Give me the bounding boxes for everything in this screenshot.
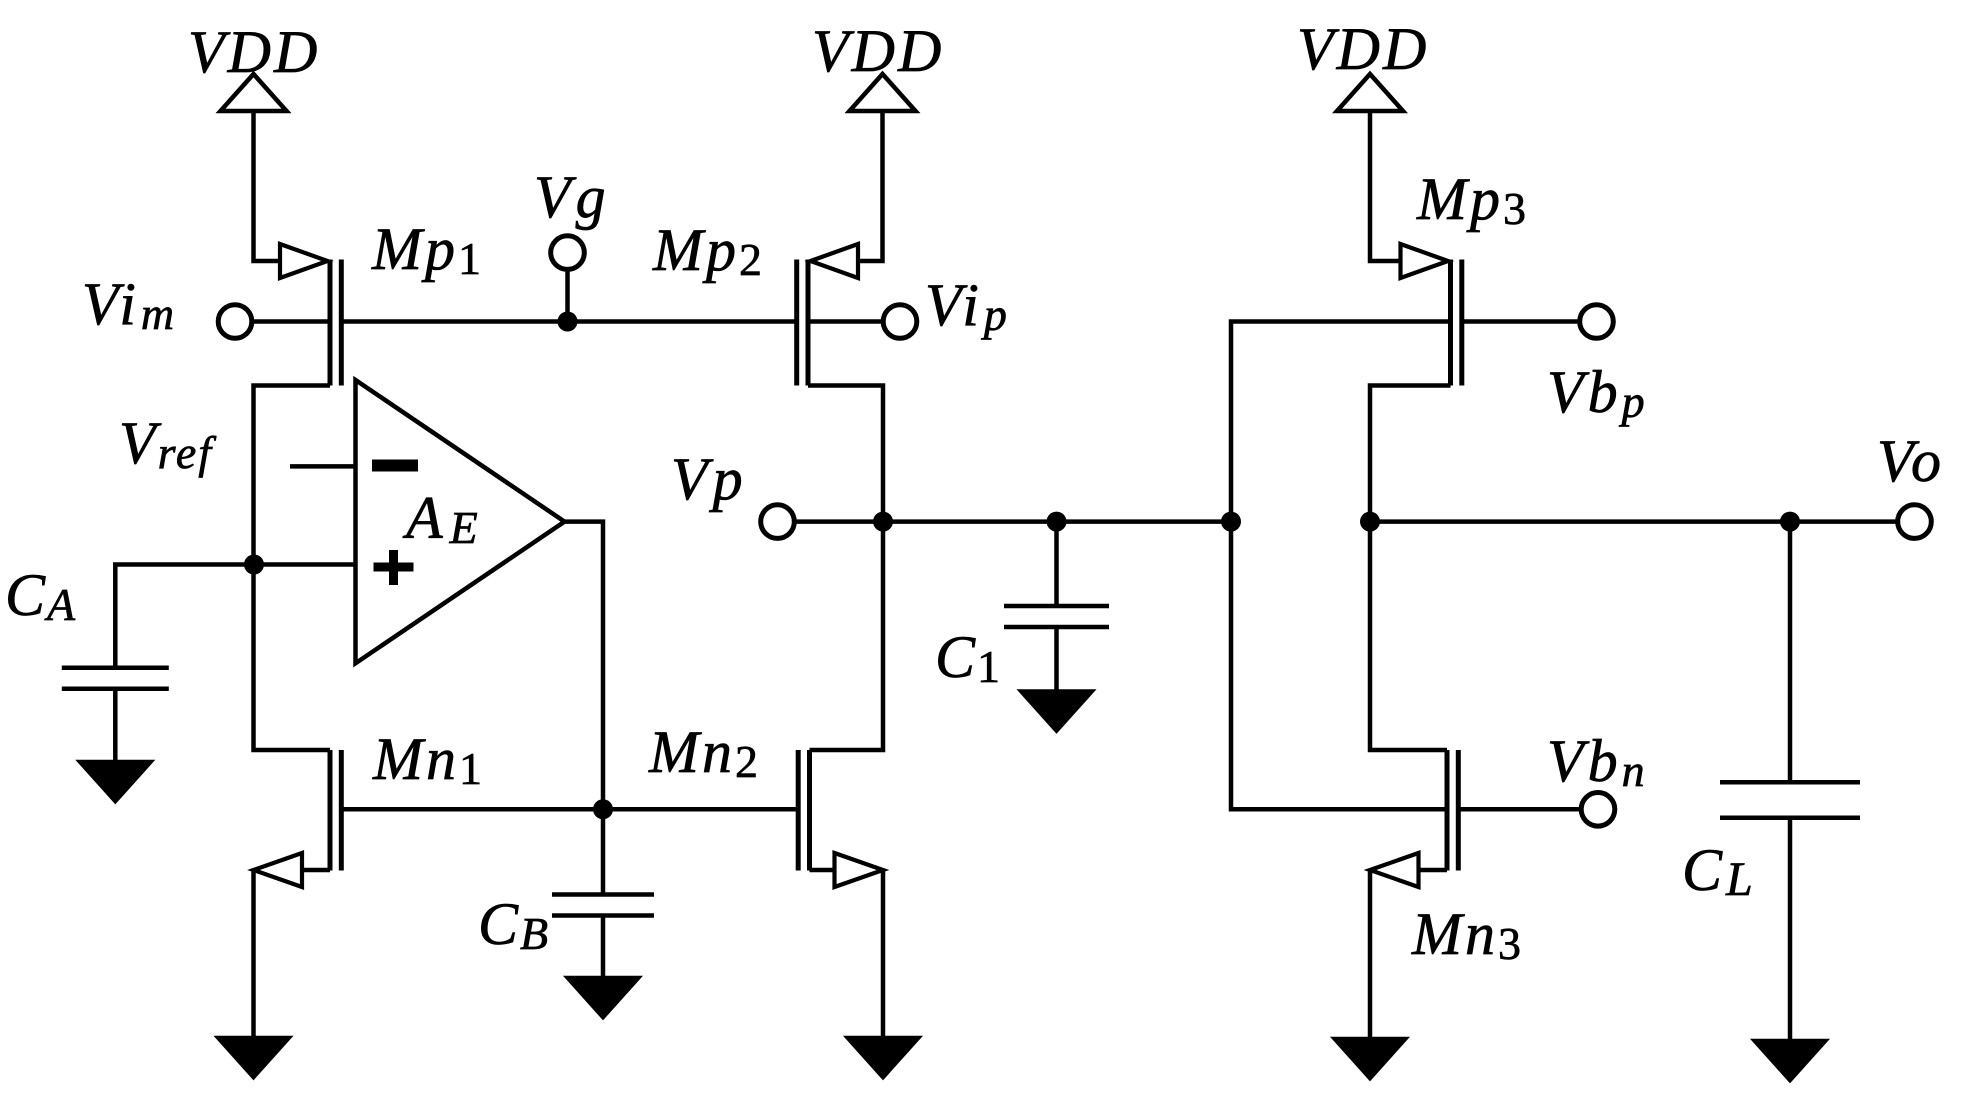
label Vref [119, 410, 217, 478]
wire CB node to CB [601, 809, 606, 894]
junction Vp at Mp2 drain [873, 512, 893, 532]
ground (below CL) [1755, 1041, 1825, 1080]
label Mp3 [1416, 166, 1529, 234]
junction Vo at drain rail [1360, 512, 1380, 532]
terminal Vp [761, 505, 795, 539]
transistor Mp3 [1401, 244, 1462, 386]
wire Mn1 source to ground [251, 870, 256, 1038]
wire Mn1 gate to Mn2 gate [341, 807, 796, 812]
ground (below C1) [1022, 692, 1092, 731]
transistor Mn2 [798, 750, 883, 887]
wire Mn3 gate to Vbn [1458, 807, 1581, 812]
junction Vp at bulk rail [1221, 512, 1241, 532]
label Vbp [1547, 359, 1649, 427]
label Mp2 [652, 217, 765, 285]
terminal Vim [218, 305, 252, 339]
terminal Vbp [1580, 305, 1614, 339]
wire CL to ground [1788, 818, 1793, 1041]
wire op-amp plus input [254, 562, 356, 567]
wire Vp node rail [794, 519, 1231, 524]
capacitor CB [552, 895, 654, 916]
capacitor CL [1720, 782, 1860, 817]
capacitor C1 [1004, 606, 1109, 627]
label Vg [534, 164, 611, 230]
wire op-amp output to Mn1 gate node [565, 522, 604, 810]
label CL [1682, 837, 1755, 906]
wire Mp3 drain / Mn3 drain (right vertical) [1370, 386, 1451, 751]
terminal Vo [1898, 505, 1932, 539]
junction Vp at C1 [1047, 512, 1067, 532]
label Mp1 [371, 216, 484, 284]
wire Mp1 gate to Mp2 gate [341, 319, 796, 324]
label CB [478, 891, 550, 959]
wire Vip to Mp2 bulk [808, 319, 884, 324]
transistor Mp1 [280, 244, 341, 386]
label Vbn [1547, 728, 1649, 796]
label Vp [671, 446, 748, 512]
svg-text:Vo: Vo [1877, 428, 1945, 494]
junction Vo at CL [1780, 512, 1800, 532]
wire Vo to CL [1788, 522, 1793, 783]
terminal Vip [883, 305, 917, 339]
wire Mn3 source to ground [1368, 870, 1373, 1039]
junction plus input node [244, 555, 264, 575]
wire Vo rail [1370, 519, 1898, 524]
label Mn2 [648, 719, 761, 787]
ground (below Mn1) [219, 1038, 289, 1077]
wire plus node to CA [115, 565, 254, 668]
wire Mn2 source to ground [881, 870, 886, 1038]
wire Vp to C1 [1054, 522, 1059, 606]
wire Vim to Mp1 bulk [252, 319, 331, 324]
junction Vg node [558, 312, 578, 332]
power VDD (left rail) [188, 19, 320, 111]
wire CA to ground [113, 689, 118, 762]
label Mn1 [372, 726, 485, 794]
wire Mp2 drain / Mn2 drain (middle vertical) [808, 386, 883, 751]
label AE (op-amp gain) [402, 485, 480, 553]
label Vo [1877, 428, 1945, 494]
wire Vref stub (op-amp minus input) [290, 464, 356, 469]
wire VDD to Mp3 source [1370, 111, 1402, 261]
ground (below Mn2) [848, 1038, 918, 1077]
wire Mp1 drain / Mn1 drain (left vertical) [254, 386, 331, 751]
capacitor CA [62, 668, 169, 689]
label Mn3 [1411, 901, 1524, 969]
svg-text:VDD: VDD [1297, 16, 1429, 82]
wire Mn1 source [302, 868, 330, 873]
op-amp AE [356, 380, 565, 663]
label Vip [925, 272, 1012, 340]
wire C1 to ground [1054, 627, 1059, 692]
transistor Mp2 [797, 244, 858, 386]
wire VDD to Mp2 source [857, 111, 883, 261]
transistor Mn1 [254, 750, 342, 887]
terminal Vg [551, 236, 585, 270]
wire VDD to Mp1 source [254, 111, 282, 261]
ground (below CB) [568, 978, 638, 1017]
svg-text:Vg: Vg [534, 164, 611, 230]
wire Mn2 source [810, 868, 835, 873]
ground (below Mn3) [1335, 1039, 1405, 1078]
label CA [5, 562, 77, 630]
wire Vg to gate rail [565, 269, 570, 322]
label C1 [935, 624, 1002, 692]
wire Vp to Mp3/Mn3 bulk rail [1231, 322, 1451, 810]
wire Mp3 gate to Vbp [1462, 319, 1582, 324]
wire Mn3 source [1419, 868, 1448, 873]
junction CB node [593, 799, 613, 819]
transistor Mn3 [1370, 750, 1458, 887]
svg-text:Vp: Vp [671, 446, 748, 512]
power VDD (right rail) [1297, 16, 1429, 111]
wire CB to ground [601, 916, 606, 979]
svg-text:VDD: VDD [812, 18, 944, 84]
power VDD (middle rail) [812, 18, 944, 111]
terminal Vbn [1581, 793, 1615, 827]
label Vim [82, 271, 179, 339]
ground (below CA) [80, 762, 150, 801]
